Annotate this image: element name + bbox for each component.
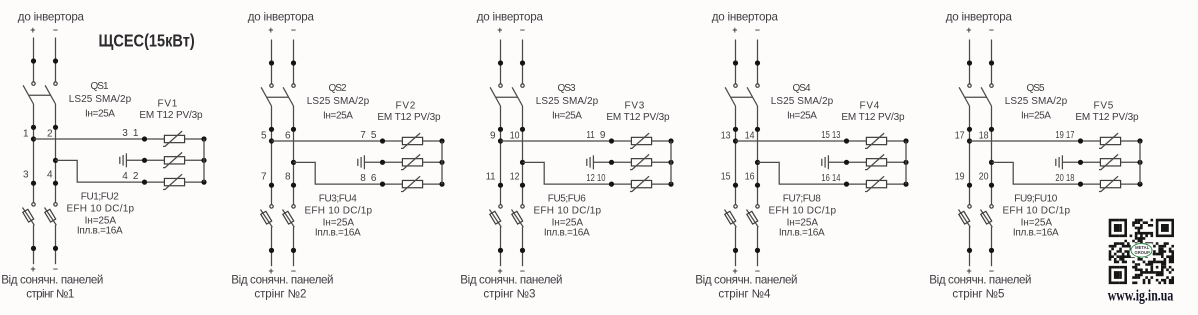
svg-text:17: 17 (955, 130, 965, 141)
fuse FU5;FU6 pole 1 blade+body (490, 210, 502, 228)
node branch + (733, 138, 738, 143)
wire FU to string - (991, 227, 993, 266)
wire varistor bottom to bus (887, 183, 906, 185)
node FV middle bus (201, 158, 206, 163)
svg-text:–: – (989, 25, 994, 35)
varistor FV1 bottom (163, 174, 185, 189)
svg-text:+: + (497, 25, 502, 35)
wire - to QS (991, 40, 993, 84)
svg-text:Від сонячн. панелей: Від сонячн. панелей (929, 274, 1031, 287)
svg-text:Ін=25A: Ін=25A (552, 111, 582, 122)
switch QS5 pole 1 contact (968, 84, 971, 87)
node terminal 11 (498, 183, 503, 188)
svg-text:–: – (291, 25, 296, 35)
svg-text:9: 9 (600, 130, 606, 141)
ground (PE) symbol (587, 155, 632, 169)
node terminal 5 (269, 127, 274, 132)
node branch - (53, 158, 58, 163)
varistor FV3 top (630, 133, 652, 148)
node terminal 7 (269, 183, 274, 188)
svg-text:QS3: QS3 (557, 83, 576, 94)
wire QS to FU pole 1 (735, 106, 737, 205)
wire - to QS (55, 38, 57, 82)
svg-text:–: – (520, 25, 525, 35)
node terminal 17 (967, 127, 972, 132)
svg-text:LS25 SMA/2p: LS25 SMA/2p (771, 96, 834, 107)
wire - branch jog to FV bottom (992, 162, 1101, 184)
node terminal 18 (989, 127, 994, 132)
fuse FU5;FU6 pole 2 contact (521, 205, 524, 208)
svg-text:EFH 10 DC/1p: EFH 10 DC/1p (67, 204, 135, 215)
node terminal 14 (755, 127, 760, 132)
wire + branch to FV top (970, 140, 1101, 142)
switch QS3 pole 1 blade (490, 87, 500, 106)
svg-text:+: + (966, 25, 971, 35)
node string - (291, 248, 296, 253)
switch QS4 pole 1 blade (725, 87, 735, 106)
svg-text:FV3: FV3 (625, 100, 645, 111)
node branch - (989, 160, 994, 165)
wire - to QS (757, 40, 759, 84)
fuse FU9;FU10 pole 1 contact (968, 205, 971, 208)
fuse FU3;FU4 pole 2 contact (292, 205, 295, 208)
node FV middle bus (903, 160, 908, 165)
node FV middle left (844, 160, 849, 165)
varistor FV5 bottom (1099, 176, 1121, 191)
string column 2 (261, 40, 445, 276)
svg-text:Ін=25A: Ін=25A (787, 111, 817, 122)
node string + (31, 246, 36, 251)
wire FU to string - (293, 227, 295, 266)
ground (PE) symbol (822, 155, 867, 169)
fuse FU3;FU4 pole 1 blade+body (261, 210, 273, 228)
node FV top bus (668, 138, 673, 143)
svg-text:6: 6 (371, 173, 377, 184)
varistor FV5 middle (1099, 154, 1121, 169)
svg-text:+: + (268, 25, 273, 35)
wire QS to FU pole 1 (271, 106, 273, 205)
FV bus wire (203, 139, 205, 182)
wire QS to FU pole 1 (500, 106, 502, 205)
wire + to QS (735, 40, 737, 84)
switch QS5 pole 2 contact (990, 84, 993, 87)
svg-text:14: 14 (832, 173, 841, 184)
svg-text:EFH 10 DC/1p: EFH 10 DC/1p (769, 206, 837, 217)
node terminal 6 (291, 127, 296, 132)
varistor FV1 middle (163, 152, 185, 167)
svg-text:7: 7 (261, 172, 267, 183)
node string + (967, 248, 972, 253)
svg-text:15: 15 (721, 172, 731, 183)
node terminal 20 (989, 183, 994, 188)
node FV top left (609, 138, 614, 143)
string column 4 (721, 40, 909, 276)
node terminal 15 (733, 183, 738, 188)
svg-text:–: – (53, 25, 58, 35)
svg-text:10: 10 (597, 173, 606, 184)
wire - branch jog to FV bottom (758, 162, 867, 184)
node branch + (269, 138, 274, 143)
svg-text:–: – (755, 25, 760, 35)
node FV top left (1078, 138, 1083, 143)
wire QS to FU pole 2 (293, 106, 295, 205)
wire varistor bottom to bus (185, 181, 204, 183)
node terminal 4 (53, 181, 58, 186)
switch QS4 pole 2 contact (756, 84, 759, 87)
varistor FV5 top (1099, 133, 1121, 148)
svg-text:16: 16 (821, 173, 830, 184)
node on + wire (269, 60, 274, 65)
switch QS1 pole 1 blade (23, 85, 33, 104)
node FV middle bus (439, 160, 444, 165)
node FV bottom bus (1137, 182, 1142, 187)
node FV middle left (1078, 160, 1083, 165)
svg-text:EM T12 PV/3p: EM T12 PV/3p (139, 110, 203, 121)
svg-text:19: 19 (1055, 130, 1064, 141)
svg-text:стрінг №2: стрінг №2 (254, 287, 306, 300)
svg-text:14: 14 (745, 130, 755, 141)
switch QS2 linkage (267, 96, 289, 98)
fuse FU1;FU2 pole 2 contact (54, 203, 57, 206)
svg-text:4: 4 (122, 171, 128, 182)
svg-text:EFH 10 DC/1p: EFH 10 DC/1p (305, 206, 373, 217)
svg-text:8: 8 (360, 173, 366, 184)
wire - branch jog to FV bottom (294, 162, 403, 184)
wire varistor top to bus (423, 140, 442, 142)
node branch - (291, 160, 296, 165)
svg-text:3: 3 (23, 170, 29, 181)
node FV bottom bus (668, 182, 673, 187)
fuse FU9;FU10 pole 2 blade+body (981, 210, 993, 228)
switch QS1 linkage (29, 94, 51, 96)
svg-text:FU5;FU6: FU5;FU6 (548, 194, 586, 205)
wire QS to FU pole 1 (969, 106, 971, 205)
node on + wire (498, 60, 503, 65)
svg-text:FV1: FV1 (158, 98, 178, 109)
wire - to QS (293, 40, 295, 84)
svg-text:EM T12 PV/3p: EM T12 PV/3p (606, 112, 670, 123)
node FV top bus (903, 138, 908, 143)
fuse FU1;FU2 pole 2 blade+body (45, 208, 57, 226)
svg-text:EM T12 PV/3p: EM T12 PV/3p (377, 112, 441, 123)
svg-text:до інвертора: до інвертора (712, 10, 779, 23)
svg-text:QS4: QS4 (792, 83, 811, 94)
node terminal 12 (520, 183, 525, 188)
string column 1 (23, 38, 207, 274)
fuse FU5;FU6 pole 1 contact (499, 205, 502, 208)
svg-text:12: 12 (510, 172, 520, 183)
string column 3 (486, 40, 674, 276)
varistor FV3 middle (630, 154, 652, 169)
switch QS4 pole 2 blade (747, 87, 757, 106)
switch QS3 pole 2 contact (521, 84, 524, 87)
node terminal 1 (31, 125, 36, 130)
node terminal 13 (733, 127, 738, 132)
node FV top bus (1137, 138, 1142, 143)
svg-text:EM T12 PV/3p: EM T12 PV/3p (1075, 112, 1139, 123)
switch QS3 pole 1 contact (499, 84, 502, 87)
fuse FU1;FU2 pole 1 blade+body (23, 208, 35, 226)
fuse FU9;FU10 pole 2 contact (990, 205, 993, 208)
node on + wire (967, 60, 972, 65)
wire FU to string + (33, 225, 35, 264)
ground (PE) symbol (120, 153, 165, 167)
switch QS4 linkage (731, 96, 753, 98)
svg-text:1: 1 (23, 128, 29, 139)
svg-text:18: 18 (979, 130, 989, 141)
node FV bottom bus (903, 182, 908, 187)
fuse FU7;FU8 pole 1 blade+body (725, 210, 737, 228)
wire varistor top to bus (1121, 140, 1140, 142)
node terminal 2 (53, 125, 58, 130)
svg-text:13: 13 (721, 130, 731, 141)
wire varistor middle to bus (887, 161, 906, 163)
fuse FU9;FU10 pole 1 blade+body (959, 210, 971, 228)
varistor FV4 middle (865, 154, 887, 169)
wire varistor bottom to bus (1121, 183, 1140, 185)
svg-text:11: 11 (486, 172, 496, 183)
node terminal 3 (31, 181, 36, 186)
svg-text:5: 5 (371, 130, 377, 141)
wire QS to FU pole 1 (33, 104, 35, 203)
switch QS2 pole 2 contact (292, 84, 295, 87)
string column 5 (955, 40, 1143, 276)
FV bus wire (670, 141, 672, 184)
fuse FU7;FU8 pole 2 contact (756, 205, 759, 208)
FV bus wire (441, 141, 443, 184)
wire + to QS (969, 40, 971, 84)
node string - (53, 246, 58, 251)
wire + branch to FV top (272, 140, 403, 142)
wire FU to string - (522, 227, 524, 266)
fuse FU1;FU2 pole 1 contact (32, 203, 35, 206)
wire varistor bottom to bus (423, 183, 442, 185)
svg-text:Ін=25A: Ін=25A (323, 111, 353, 122)
svg-text:6: 6 (285, 130, 291, 141)
wire + branch to FV top (501, 140, 632, 142)
node string + (498, 248, 503, 253)
node string + (269, 248, 274, 253)
svg-text:Іпл.в.=16A: Іпл.в.=16A (77, 226, 123, 237)
FV bus wire (905, 141, 907, 184)
switch QS2 pole 2 blade (283, 87, 293, 106)
wire FU to string + (735, 227, 737, 266)
svg-text:Іпл.в.=16A: Іпл.в.=16A (544, 228, 590, 239)
node on + wire (733, 60, 738, 65)
wire varistor top to bus (652, 140, 671, 142)
node FV bottom left (609, 182, 614, 187)
svg-text:QS2: QS2 (328, 83, 347, 94)
svg-text:стрінг №1: стрінг №1 (26, 287, 74, 300)
svg-text:LS25 SMA/2p: LS25 SMA/2p (69, 94, 132, 105)
svg-text:www.ig.in.ua: www.ig.in.ua (1108, 287, 1174, 304)
wire varistor top to bus (887, 140, 906, 142)
svg-text:9: 9 (490, 130, 496, 141)
fuse FU3;FU4 pole 1 contact (270, 205, 273, 208)
svg-text:15: 15 (821, 130, 830, 141)
switch QS5 linkage (965, 96, 987, 98)
svg-text:13: 13 (832, 130, 841, 141)
svg-text:12: 12 (586, 173, 595, 184)
svg-text:до інвертора: до інвертора (946, 10, 1013, 23)
svg-text:QS1: QS1 (90, 81, 109, 92)
node FV top left (142, 136, 147, 141)
wire + to QS (500, 40, 502, 84)
node string - (520, 248, 525, 253)
svg-text:20: 20 (979, 172, 989, 183)
node branch + (498, 138, 503, 143)
node branch - (520, 160, 525, 165)
wire FU to string + (500, 227, 502, 266)
svg-text:17: 17 (1066, 130, 1075, 141)
node branch + (31, 136, 36, 141)
svg-text:–: – (53, 263, 58, 273)
wire QS to FU pole 2 (522, 106, 524, 205)
node FV top left (380, 138, 385, 143)
wire varistor middle to bus (423, 161, 442, 163)
svg-text:стрінг №4: стрінг №4 (718, 287, 771, 300)
svg-text:Іпл.в.=16A: Іпл.в.=16A (1013, 228, 1059, 239)
switch QS1 pole 2 blade (45, 85, 55, 104)
wire QS to FU pole 2 (55, 104, 57, 203)
svg-text:2: 2 (47, 128, 53, 139)
fuse FU5;FU6 pole 2 blade+body (512, 210, 524, 228)
QR center logo METAL GROUP (1131, 243, 1153, 257)
wire varistor middle to bus (1121, 161, 1140, 163)
svg-text:до інвертора: до інвертора (18, 10, 85, 23)
node on - wire (53, 58, 58, 63)
switch QS3 pole 2 blade (512, 87, 522, 106)
node branch - (755, 160, 760, 165)
svg-text:18: 18 (1066, 173, 1075, 184)
switch QS2 pole 1 blade (261, 87, 271, 106)
node FV bottom left (844, 182, 849, 187)
svg-text:LS25 SMA/2p: LS25 SMA/2p (1005, 96, 1068, 107)
svg-text:Від сонячн. панелей: Від сонячн. панелей (1, 274, 103, 287)
svg-text:Іпл.в.=16A: Іпл.в.=16A (779, 228, 825, 239)
ground (PE) symbol (358, 155, 403, 169)
wire QS to FU pole 2 (757, 106, 759, 205)
fuse FU7;FU8 pole 2 blade+body (747, 210, 759, 228)
svg-text:Від сонячн. панелей: Від сонячн. панелей (695, 274, 797, 287)
node terminal 10 (520, 127, 525, 132)
node terminal 9 (498, 127, 503, 132)
svg-text:Ін=25A: Ін=25A (85, 109, 115, 120)
switch QS4 pole 1 contact (734, 84, 737, 87)
varistor FV3 bottom (630, 176, 652, 191)
wire varistor middle to bus (185, 159, 204, 161)
svg-text:10: 10 (510, 130, 520, 141)
node FV middle left (609, 160, 614, 165)
svg-text:FV2: FV2 (396, 100, 416, 111)
svg-text:4: 4 (47, 170, 53, 181)
switch QS1 pole 2 contact (54, 82, 57, 85)
svg-text:ЩСЕС(15кВт): ЩСЕС(15кВт) (99, 31, 195, 51)
svg-text:+: + (732, 25, 737, 35)
svg-text:Ін=25A: Ін=25A (1021, 111, 1051, 122)
varistor FV1 top (163, 131, 185, 146)
node FV middle left (380, 160, 385, 165)
node FV top left (844, 138, 849, 143)
svg-text:3: 3 (122, 128, 128, 139)
wire + branch to FV top (34, 138, 165, 140)
wire + branch to FV top (736, 140, 867, 142)
node on - wire (989, 60, 994, 65)
wire - branch jog to FV bottom (523, 162, 632, 184)
svg-text:19: 19 (955, 172, 965, 183)
node string - (989, 248, 994, 253)
wire - to QS (522, 40, 524, 84)
varistor FV2 bottom (401, 176, 423, 191)
wire varistor bottom to bus (652, 183, 671, 185)
node on - wire (291, 60, 296, 65)
wire varistor top to bus (185, 138, 204, 140)
svg-text:7: 7 (360, 130, 366, 141)
wire QS to FU pole 2 (991, 106, 993, 205)
wire FU to string + (271, 227, 273, 266)
node string - (755, 248, 760, 253)
svg-text:FV4: FV4 (860, 100, 880, 111)
node on - wire (755, 60, 760, 65)
wire FU to string - (757, 227, 759, 266)
svg-text:EM T12 PV/3p: EM T12 PV/3p (841, 112, 905, 123)
switch QS5 pole 2 blade (981, 87, 991, 106)
svg-text:8: 8 (285, 172, 291, 183)
svg-text:до інвертора: до інвертора (477, 10, 544, 23)
node FV bottom left (380, 182, 385, 187)
wire + to QS (271, 40, 273, 84)
svg-text:1: 1 (133, 128, 139, 139)
FV bus wire (1139, 141, 1141, 184)
node terminal 16 (755, 183, 760, 188)
fuse FU3;FU4 pole 2 blade+body (283, 210, 295, 228)
node branch + (967, 138, 972, 143)
svg-text:EFH 10 DC/1p: EFH 10 DC/1p (534, 206, 602, 217)
svg-text:20: 20 (1055, 173, 1064, 184)
node FV middle bus (1137, 160, 1142, 165)
varistor FV2 middle (401, 154, 423, 169)
switch QS5 pole 1 blade (959, 87, 969, 106)
svg-text:FU1;FU2: FU1;FU2 (81, 192, 119, 203)
node terminal 8 (291, 183, 296, 188)
svg-text:FU3;FU4: FU3;FU4 (319, 194, 357, 205)
node on - wire (520, 60, 525, 65)
varistor FV4 bottom (865, 176, 887, 191)
svg-text:GROUP: GROUP (1135, 250, 1151, 255)
svg-text:2: 2 (133, 171, 139, 182)
node FV bottom left (1078, 182, 1083, 187)
wire varistor middle to bus (652, 161, 671, 163)
wire + to QS (33, 38, 35, 82)
wire FU to string - (55, 225, 57, 264)
svg-text:+: + (30, 264, 35, 274)
varistor FV4 top (865, 133, 887, 148)
svg-text:FV5: FV5 (1094, 100, 1114, 111)
svg-text:Від сонячн. панелей: Від сонячн. панелей (460, 274, 562, 287)
svg-text:стрінг №5: стрінг №5 (952, 287, 1004, 300)
svg-text:+: + (30, 25, 35, 35)
QR code www.ig.in.ua (1109, 219, 1174, 284)
switch QS1 pole 1 contact (32, 82, 35, 85)
svg-text:QS5: QS5 (1026, 83, 1045, 94)
svg-text:стрінг №3: стрінг №3 (483, 287, 535, 300)
switch QS2 pole 1 contact (270, 84, 273, 87)
node string + (733, 248, 738, 253)
svg-text:5: 5 (261, 130, 267, 141)
node FV middle left (142, 158, 147, 163)
svg-text:FU9;FU10: FU9;FU10 (1014, 194, 1057, 205)
node FV top bus (439, 138, 444, 143)
